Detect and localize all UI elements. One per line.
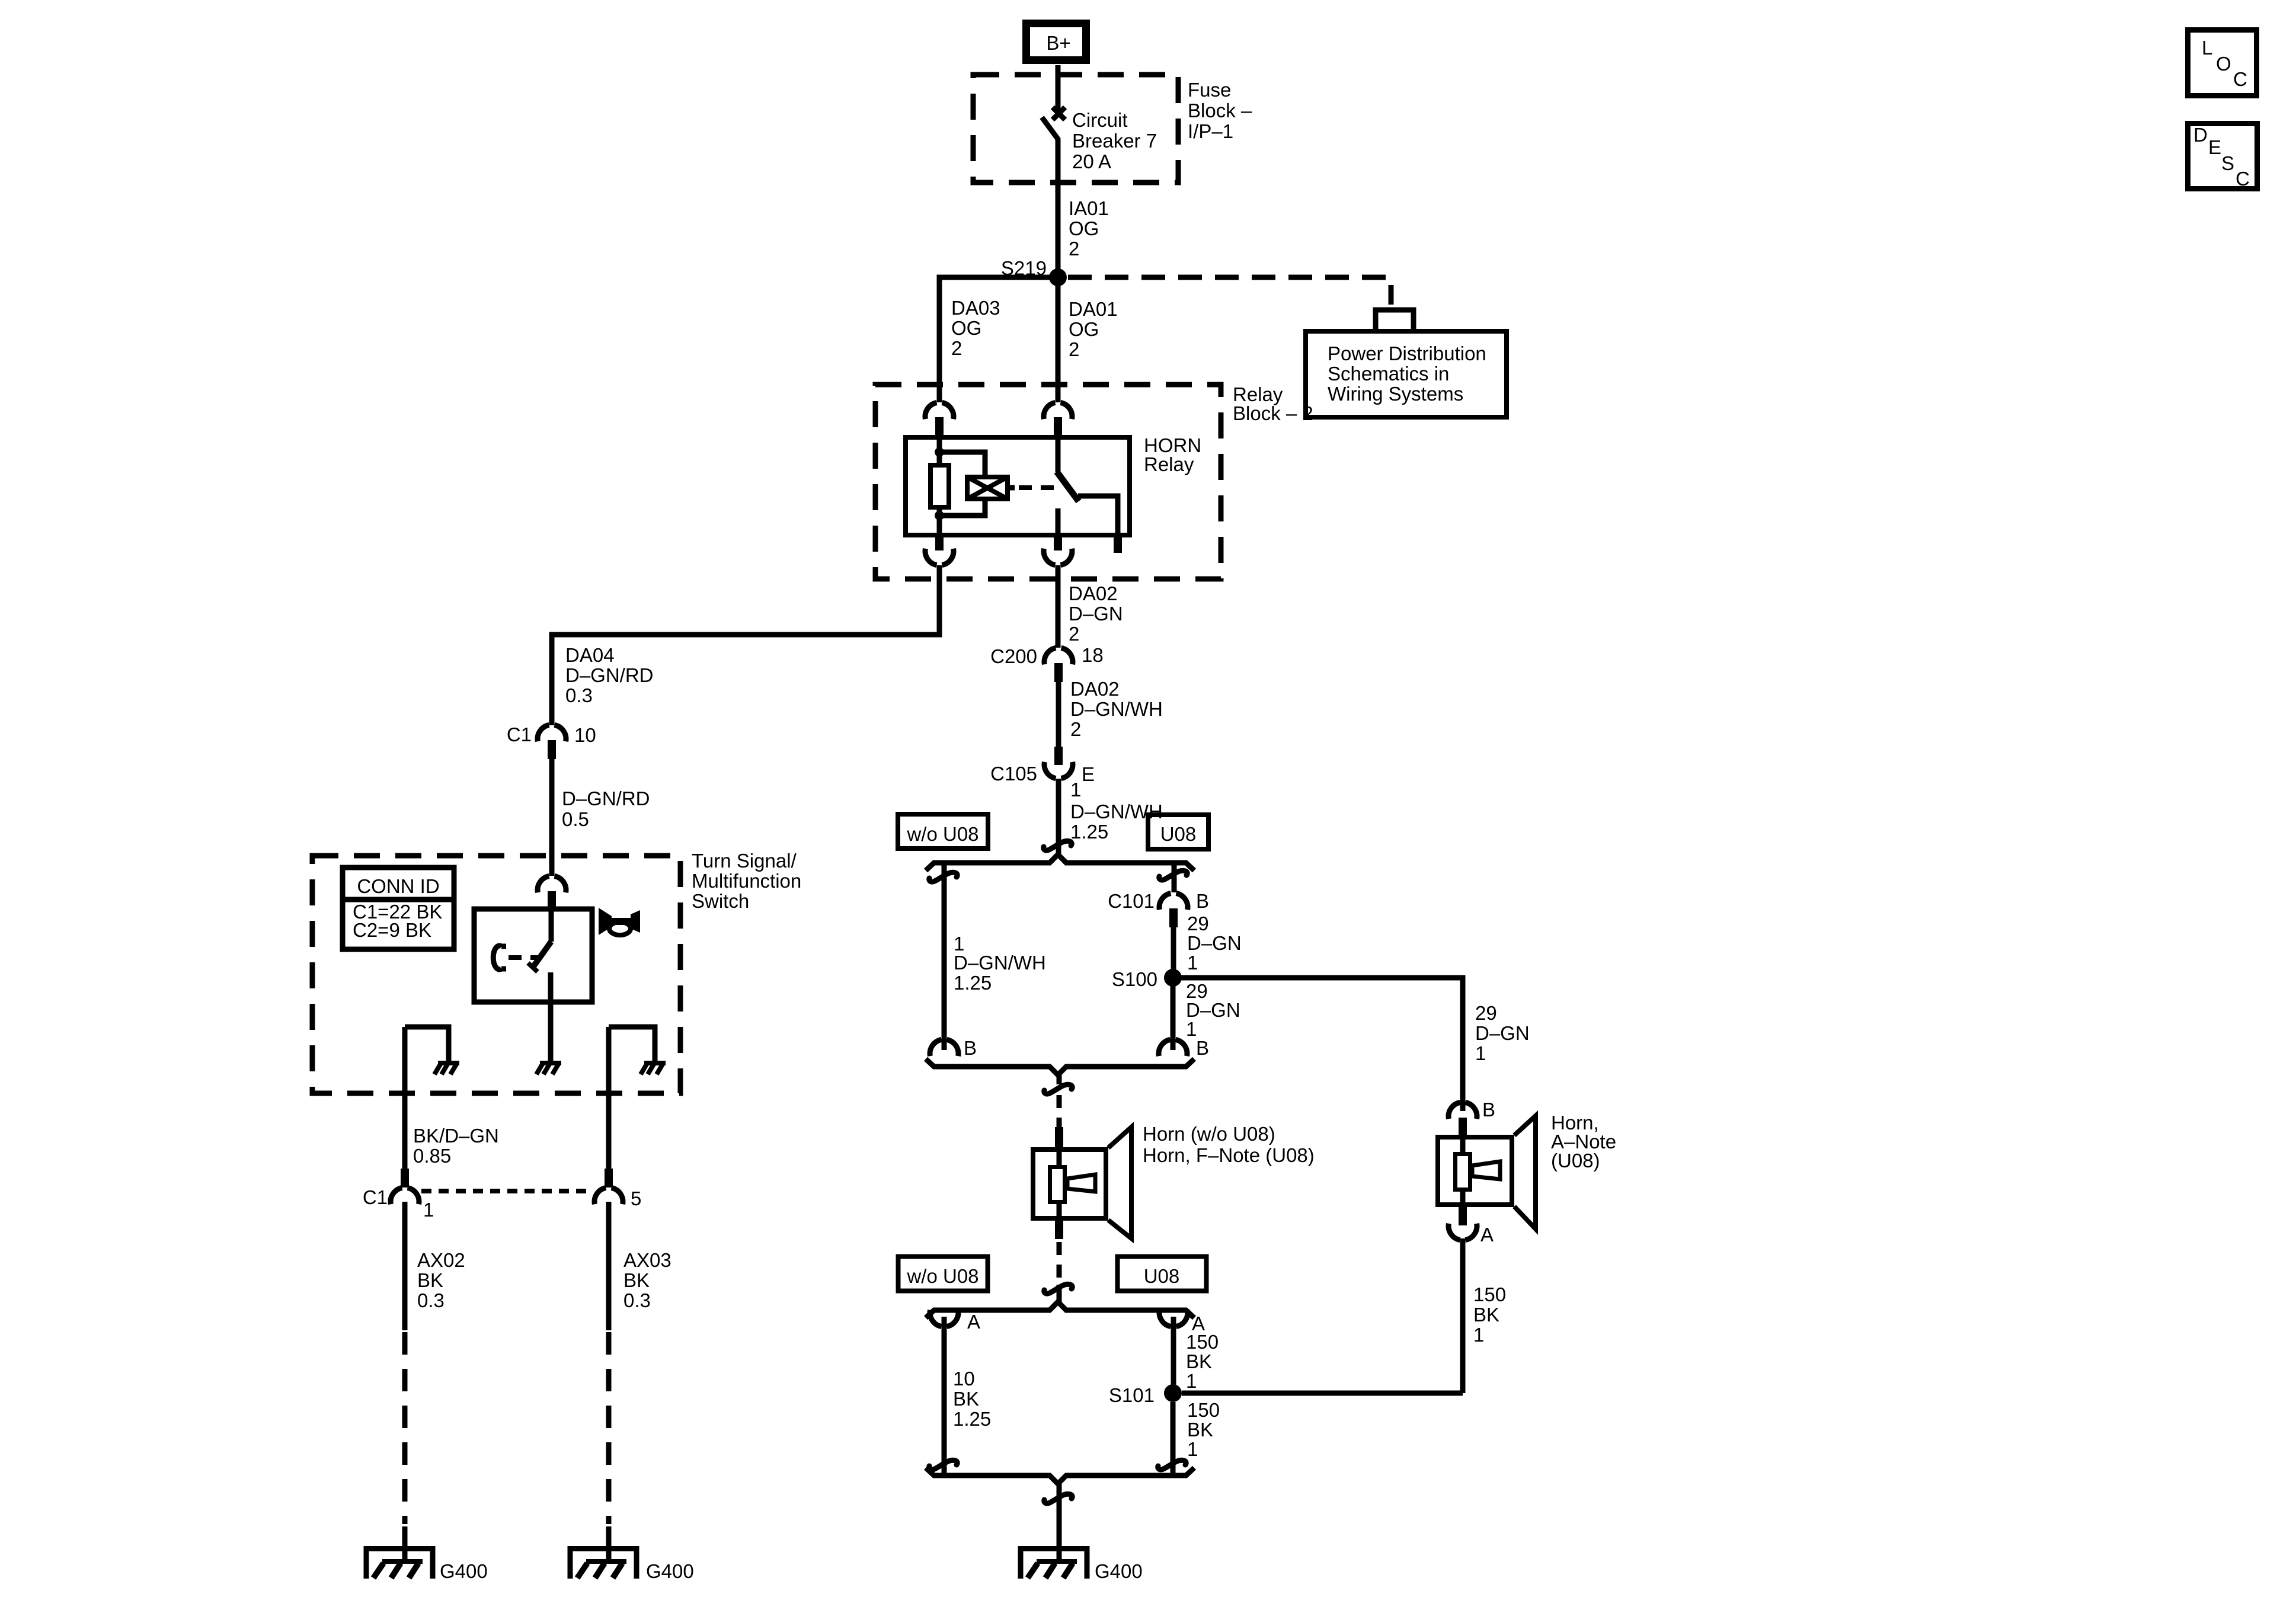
branch curl right [1159, 870, 1187, 880]
relay resistor [930, 465, 949, 507]
pin terminal top right [1054, 417, 1062, 438]
horn coil element [1050, 1150, 1096, 1219]
button DESC [2188, 124, 2257, 190]
splice curl below bottom bus [1044, 1494, 1072, 1503]
svg-text:Block –: Block – [1188, 100, 1252, 121]
pin below horn [1055, 1218, 1063, 1239]
wire S219 down (DA01) [1056, 277, 1061, 402]
wire AX02 solid [402, 1202, 408, 1330]
svg-text:0.3: 0.3 [565, 684, 593, 706]
pin terminal bottom right [1054, 535, 1062, 550]
label Relay Block - 2 [1233, 383, 1313, 424]
svg-text:150: 150 [1187, 1399, 1220, 1421]
switch lower wire to ground [548, 972, 554, 1063]
svg-text:29: 29 [1187, 913, 1209, 934]
svg-text:A: A [1480, 1224, 1494, 1246]
off-page connector fork [1376, 310, 1414, 331]
wire label AX03 BK 0.3 [623, 1249, 671, 1311]
svg-text:(U08): (U08) [1551, 1150, 1600, 1172]
svg-text:2: 2 [1069, 338, 1079, 360]
wire relay to C200 [1056, 565, 1061, 648]
option box U08 lower [1118, 1257, 1207, 1291]
svg-text:CONN ID: CONN ID [357, 875, 439, 897]
branch curl bottom left [929, 1460, 957, 1470]
svg-text:O: O [2216, 53, 2231, 75]
label Horn (w/o U08) / Horn F-Note (U08) [1143, 1123, 1315, 1166]
dashed wire S219 to power distribution [1068, 277, 1391, 305]
switch body box [474, 909, 592, 1002]
svg-text:B: B [1482, 1099, 1495, 1121]
svg-text:150: 150 [1186, 1331, 1219, 1353]
svg-text:OG: OG [1069, 217, 1099, 239]
label HORN Relay [1144, 434, 1201, 475]
svg-text:OG: OG [951, 317, 981, 339]
svg-text:S: S [2221, 152, 2234, 174]
svg-text:D–GN: D–GN [1475, 1022, 1530, 1044]
svg-text:E: E [2208, 136, 2221, 158]
svg-text:DA03: DA03 [951, 297, 1000, 319]
relay switch common wire [1056, 437, 1061, 472]
svg-text:0.5: 0.5 [562, 808, 589, 830]
svg-text:OG: OG [1069, 318, 1099, 340]
wire label 29 D-GN 1 right [1475, 1002, 1530, 1064]
relay switch blade [1057, 472, 1079, 501]
svg-text:C105: C105 [990, 763, 1037, 785]
wire label 1 D-GN/WH 1.25 left branch [954, 933, 1046, 994]
connector B left branch (dome) [930, 1039, 958, 1056]
connector A right (bowl) [1159, 1310, 1188, 1327]
wire to coil bottom [939, 499, 985, 516]
svg-text:BK: BK [953, 1388, 979, 1410]
wire label DA04 D-GN/RD 0.3 [565, 644, 654, 706]
connector C105 (bowl) [1044, 762, 1073, 779]
pin terminal into switch [548, 891, 556, 910]
option box w/o U08 upper [898, 814, 988, 849]
wire left branch down [942, 864, 947, 1050]
svg-text:C: C [2233, 68, 2247, 90]
connector C1 pin 5 (dome) [594, 1188, 623, 1204]
wire relay to turn signal switch (DA04) [552, 565, 939, 725]
pin terminal above C1 pin 5 [605, 1169, 613, 1188]
wire label AX02 BK 0.3 [417, 1249, 465, 1311]
svg-text:S100: S100 [1112, 968, 1157, 990]
ground G400 left [366, 1549, 433, 1579]
option box w/o U08 lower [898, 1257, 988, 1291]
option box U08 upper [1148, 815, 1208, 849]
connector B right branch (dome) [1159, 1039, 1187, 1056]
wire to ground G400 [1057, 1484, 1062, 1561]
horn flare [1108, 1127, 1131, 1238]
wire S100 to A-note horn [1181, 978, 1463, 1111]
svg-text:18: 18 [1082, 644, 1104, 666]
connector C101 (dome) [1159, 893, 1188, 910]
wire label 150 BK 1 right [1473, 1283, 1506, 1346]
splice bus brace bottom [926, 1468, 1194, 1484]
svg-text:L: L [2202, 37, 2212, 59]
svg-text:150: 150 [1473, 1283, 1506, 1305]
right ground jog wire [609, 1027, 655, 1063]
ground G400 right [570, 1549, 637, 1579]
svg-text:Block – 2: Block – 2 [1233, 402, 1313, 424]
svg-text:S101: S101 [1109, 1384, 1155, 1406]
connector B A-note horn (dome) [1448, 1102, 1477, 1119]
svg-text:C101: C101 [1108, 890, 1155, 912]
switch actuator dashes [509, 955, 541, 960]
svg-text:D–GN: D–GN [1069, 603, 1123, 625]
label Turn Signal/Multifunction Switch [692, 850, 801, 912]
svg-text:DA01: DA01 [1069, 298, 1118, 320]
wire label 29 D-GN 1 above S100 [1187, 913, 1242, 974]
svg-text:1.25: 1.25 [953, 1408, 991, 1430]
svg-text:Horn, F–Note (U08): Horn, F–Note (U08) [1143, 1144, 1315, 1166]
horn A-note coil element [1456, 1137, 1501, 1206]
wire label 29 D-GN 1 below S100 [1186, 980, 1240, 1040]
svg-text:B: B [1196, 1037, 1209, 1059]
connector C200 (dome) [1044, 648, 1073, 664]
pin terminal below C101 [1169, 908, 1178, 927]
wire label DA01 OG 2 [1069, 298, 1118, 360]
svg-text:I/P–1: I/P–1 [1188, 120, 1233, 142]
svg-text:Schematics in: Schematics in [1328, 363, 1449, 385]
wire label IA01 OG 2 [1069, 197, 1109, 260]
switch fixed contact curl [493, 946, 506, 969]
label Circuit Breaker 7 20 A [1072, 109, 1157, 172]
wire C101 to S100 [1171, 927, 1176, 969]
splice S219 [1049, 268, 1067, 286]
power symbol B+ [1027, 24, 1086, 60]
wire B+ to circuit breaker [1056, 65, 1061, 110]
unused pin stub [1114, 535, 1122, 553]
svg-text:0.3: 0.3 [417, 1289, 445, 1311]
relay block dashed box [875, 385, 1221, 579]
svg-text:1: 1 [1070, 779, 1081, 801]
svg-text:Turn Signal/: Turn Signal/ [692, 850, 797, 872]
svg-text:D–GN/RD: D–GN/RD [562, 788, 650, 809]
pin terminal above C105 [1054, 747, 1063, 765]
svg-text:Power Distribution: Power Distribution [1328, 343, 1486, 364]
svg-text:2: 2 [951, 337, 962, 359]
svg-text:E: E [1082, 763, 1095, 785]
wire label 1 D-GN/WH 1.25 [1070, 779, 1163, 843]
HORN relay body [906, 437, 1130, 535]
splice bus brace third [926, 1302, 1194, 1318]
svg-text:20 A: 20 A [1072, 151, 1111, 172]
connector pin 30 bottom right (bowl) [1044, 549, 1072, 565]
splice curl above bus [1044, 841, 1072, 850]
svg-text:G400: G400 [440, 1560, 488, 1582]
connector C1 pin 10 (dome) [538, 725, 566, 741]
connector pin 86 top left (dome) [925, 402, 954, 419]
svg-text:D–GN: D–GN [1187, 932, 1242, 954]
horn A-note flare [1514, 1116, 1536, 1229]
svg-text:G400: G400 [646, 1560, 694, 1582]
label Fuse Block - I/P-1 [1188, 79, 1252, 142]
turn signal switch dashed box [312, 856, 680, 1093]
svg-text:Relay: Relay [1144, 453, 1194, 475]
svg-text:AX03: AX03 [623, 1249, 671, 1271]
svg-text:B: B [1196, 890, 1209, 912]
svg-text:2: 2 [1070, 718, 1081, 740]
svg-text:C1: C1 [363, 1186, 388, 1208]
svg-text:5: 5 [631, 1188, 641, 1209]
wire label DA02 D-GN/WH 2 [1070, 678, 1163, 740]
svg-text:1.25: 1.25 [954, 972, 992, 994]
branch curl left [929, 872, 957, 882]
splice bus brace lower (horn side) [926, 1059, 1194, 1075]
svg-text:U08: U08 [1160, 823, 1197, 845]
dashed wire to horn [1057, 1074, 1062, 1084]
switch pole wire [549, 910, 554, 942]
relay coil feed wire left [937, 437, 942, 535]
svg-text:0.85: 0.85 [413, 1145, 451, 1167]
branch curl bottom right [1158, 1460, 1186, 1470]
wire AX02 dashed to ground [402, 1332, 408, 1524]
wire label 150 BK 1 below S101 [1187, 1399, 1220, 1460]
connector at switch (dome) [538, 876, 566, 892]
svg-text:BK: BK [417, 1269, 443, 1291]
wire switch pin 5 down [606, 1027, 612, 1170]
wire AX03 solid [606, 1202, 612, 1330]
horn A-note body [1438, 1137, 1512, 1205]
connector pin bottom left (bowl) [925, 549, 954, 565]
svg-text:BK: BK [1186, 1350, 1212, 1372]
svg-text:C1: C1 [507, 724, 532, 745]
svg-text:Fuse: Fuse [1188, 79, 1231, 101]
ground G400 center [1021, 1549, 1087, 1579]
svg-text:1: 1 [1187, 1438, 1198, 1460]
svg-text:1: 1 [1473, 1324, 1484, 1346]
svg-text:Switch: Switch [692, 890, 749, 912]
wire AX02 ground stub [402, 1526, 408, 1561]
chassis ground right (switch) [641, 1063, 666, 1074]
svg-text:10: 10 [574, 724, 596, 746]
svg-text:Circuit: Circuit [1072, 109, 1128, 131]
wire C105 to splice bus [1056, 779, 1061, 856]
svg-text:G400: G400 [1095, 1560, 1143, 1582]
CONN ID table [343, 868, 454, 949]
wire to coil top [939, 452, 985, 477]
wire label DA03 OG 2 [951, 297, 1000, 359]
svg-text:1: 1 [1186, 1018, 1197, 1040]
dashed connector tie line [421, 1189, 593, 1193]
svg-text:IA01: IA01 [1069, 197, 1109, 219]
svg-text:A: A [967, 1311, 980, 1333]
switch blade [533, 942, 551, 966]
power distribution reference box [1306, 331, 1507, 417]
coil lead [1008, 485, 1015, 491]
fuse block dashed box [973, 75, 1178, 183]
connector A left (bowl) [930, 1310, 958, 1327]
connector pin 85 top right (dome) [1044, 402, 1072, 419]
svg-text:29: 29 [1475, 1002, 1497, 1024]
pin terminal bottom left [935, 535, 944, 550]
svg-text:2: 2 [1069, 238, 1079, 260]
svg-text:BK: BK [1473, 1304, 1499, 1326]
splice bus brace upper [926, 854, 1194, 870]
pin terminal into A-note horn [1459, 1118, 1467, 1137]
wire S100 down to B [1171, 986, 1176, 1050]
pin terminal below C1 [548, 740, 556, 759]
wire S219 to left branch [939, 277, 1058, 402]
wire A right to S101 [1171, 1317, 1176, 1385]
svg-text:1: 1 [423, 1199, 434, 1221]
label Horn A-Note (U08) [1551, 1112, 1616, 1172]
svg-text:0.3: 0.3 [623, 1289, 651, 1311]
relay switch lower contact wire [1056, 508, 1061, 535]
chassis ground center (switch) [536, 1063, 561, 1074]
svg-text:1: 1 [1187, 952, 1198, 974]
left ground jog wire [405, 1027, 449, 1063]
svg-text:B: B [964, 1037, 977, 1059]
wire label BK/D-GN 0.85 [413, 1125, 499, 1167]
relay coil (box with X) [967, 477, 1008, 499]
svg-text:BK: BK [1187, 1419, 1213, 1441]
svg-text:Multifunction: Multifunction [692, 870, 801, 892]
svg-text:D–GN/RD: D–GN/RD [565, 664, 654, 686]
chassis ground left (switch) [434, 1063, 459, 1074]
svg-text:AX02: AX02 [417, 1249, 465, 1271]
svg-text:DA02: DA02 [1070, 678, 1120, 700]
junction dot coil bottom [935, 511, 944, 520]
dashed wire below horn [1057, 1242, 1062, 1278]
wire A-note horn to S101 [1460, 1238, 1466, 1393]
pin terminal below C200 [1054, 663, 1063, 682]
splice S101 [1164, 1384, 1182, 1402]
pin terminal above C1 pin 1 [401, 1169, 409, 1188]
dashed actuator link [1019, 485, 1054, 490]
wire breaker to S219 [1056, 139, 1061, 274]
junction dot coil top [935, 447, 944, 457]
connector A A-note horn (bowl) [1448, 1224, 1477, 1240]
pin into horn [1055, 1127, 1063, 1150]
wire label 10 BK 1.25 [953, 1368, 991, 1430]
button LOC [2188, 30, 2257, 96]
wire label D-GN/RD 0.5 [562, 788, 650, 830]
svg-text:w/o U08: w/o U08 [906, 1265, 978, 1287]
wire right branch to C101 [1172, 864, 1177, 892]
svg-text:C: C [2236, 168, 2250, 190]
svg-text:DA04: DA04 [565, 644, 615, 666]
svg-text:D–GN/WH: D–GN/WH [954, 952, 1046, 974]
wire label 150 BK 1 above S101 [1186, 1331, 1219, 1392]
svg-text:1.25: 1.25 [1070, 821, 1108, 843]
svg-text:w/o U08: w/o U08 [906, 823, 978, 845]
wire S101 to right horn return [1182, 1391, 1463, 1396]
pin terminal below A-note horn [1459, 1205, 1467, 1225]
pin terminal top left [935, 417, 944, 438]
wire C200 to C105 [1056, 682, 1061, 748]
wire switch pin 1 down [402, 1027, 408, 1170]
svg-text:1: 1 [1186, 1370, 1197, 1392]
wire AX03 dashed to ground [606, 1332, 612, 1524]
circuit breaker CB7 (X contact and blade) [1042, 107, 1065, 140]
svg-text:DA02: DA02 [1069, 582, 1118, 604]
svg-text:BK/D–GN: BK/D–GN [413, 1125, 499, 1147]
splice curl above lower bus [1044, 1284, 1072, 1294]
relay NC contact path [1078, 496, 1118, 535]
splice curl below horn bus [1044, 1084, 1072, 1094]
svg-text:2: 2 [1069, 623, 1079, 645]
svg-text:U08: U08 [1144, 1265, 1180, 1287]
svg-text:Wiring Systems: Wiring Systems [1328, 383, 1463, 405]
wire C1 to switch [549, 759, 555, 876]
wire label DA02 D-GN 2 [1069, 582, 1123, 645]
svg-text:C2=9 BK: C2=9 BK [353, 919, 431, 941]
wire A left down [942, 1317, 947, 1474]
horn (w/o U08) body [1033, 1150, 1106, 1218]
wire AX03 ground stub [606, 1526, 612, 1561]
wire S101 down [1171, 1402, 1176, 1474]
svg-text:D–GN/WH: D–GN/WH [1070, 698, 1163, 720]
blade foot tick [528, 963, 538, 972]
svg-text:10: 10 [953, 1368, 975, 1390]
horn icon [599, 908, 640, 935]
svg-text:B+: B+ [1046, 32, 1070, 54]
svg-text:C200: C200 [990, 645, 1037, 667]
svg-text:D: D [2193, 124, 2208, 146]
svg-text:Horn (w/o U08): Horn (w/o U08) [1143, 1123, 1275, 1145]
splice S100 [1164, 969, 1182, 987]
svg-text:Breaker 7: Breaker 7 [1072, 130, 1157, 152]
connector C1 pin 1 (dome) [391, 1188, 419, 1204]
svg-text:1: 1 [1475, 1042, 1486, 1064]
svg-text:BK: BK [623, 1269, 650, 1291]
